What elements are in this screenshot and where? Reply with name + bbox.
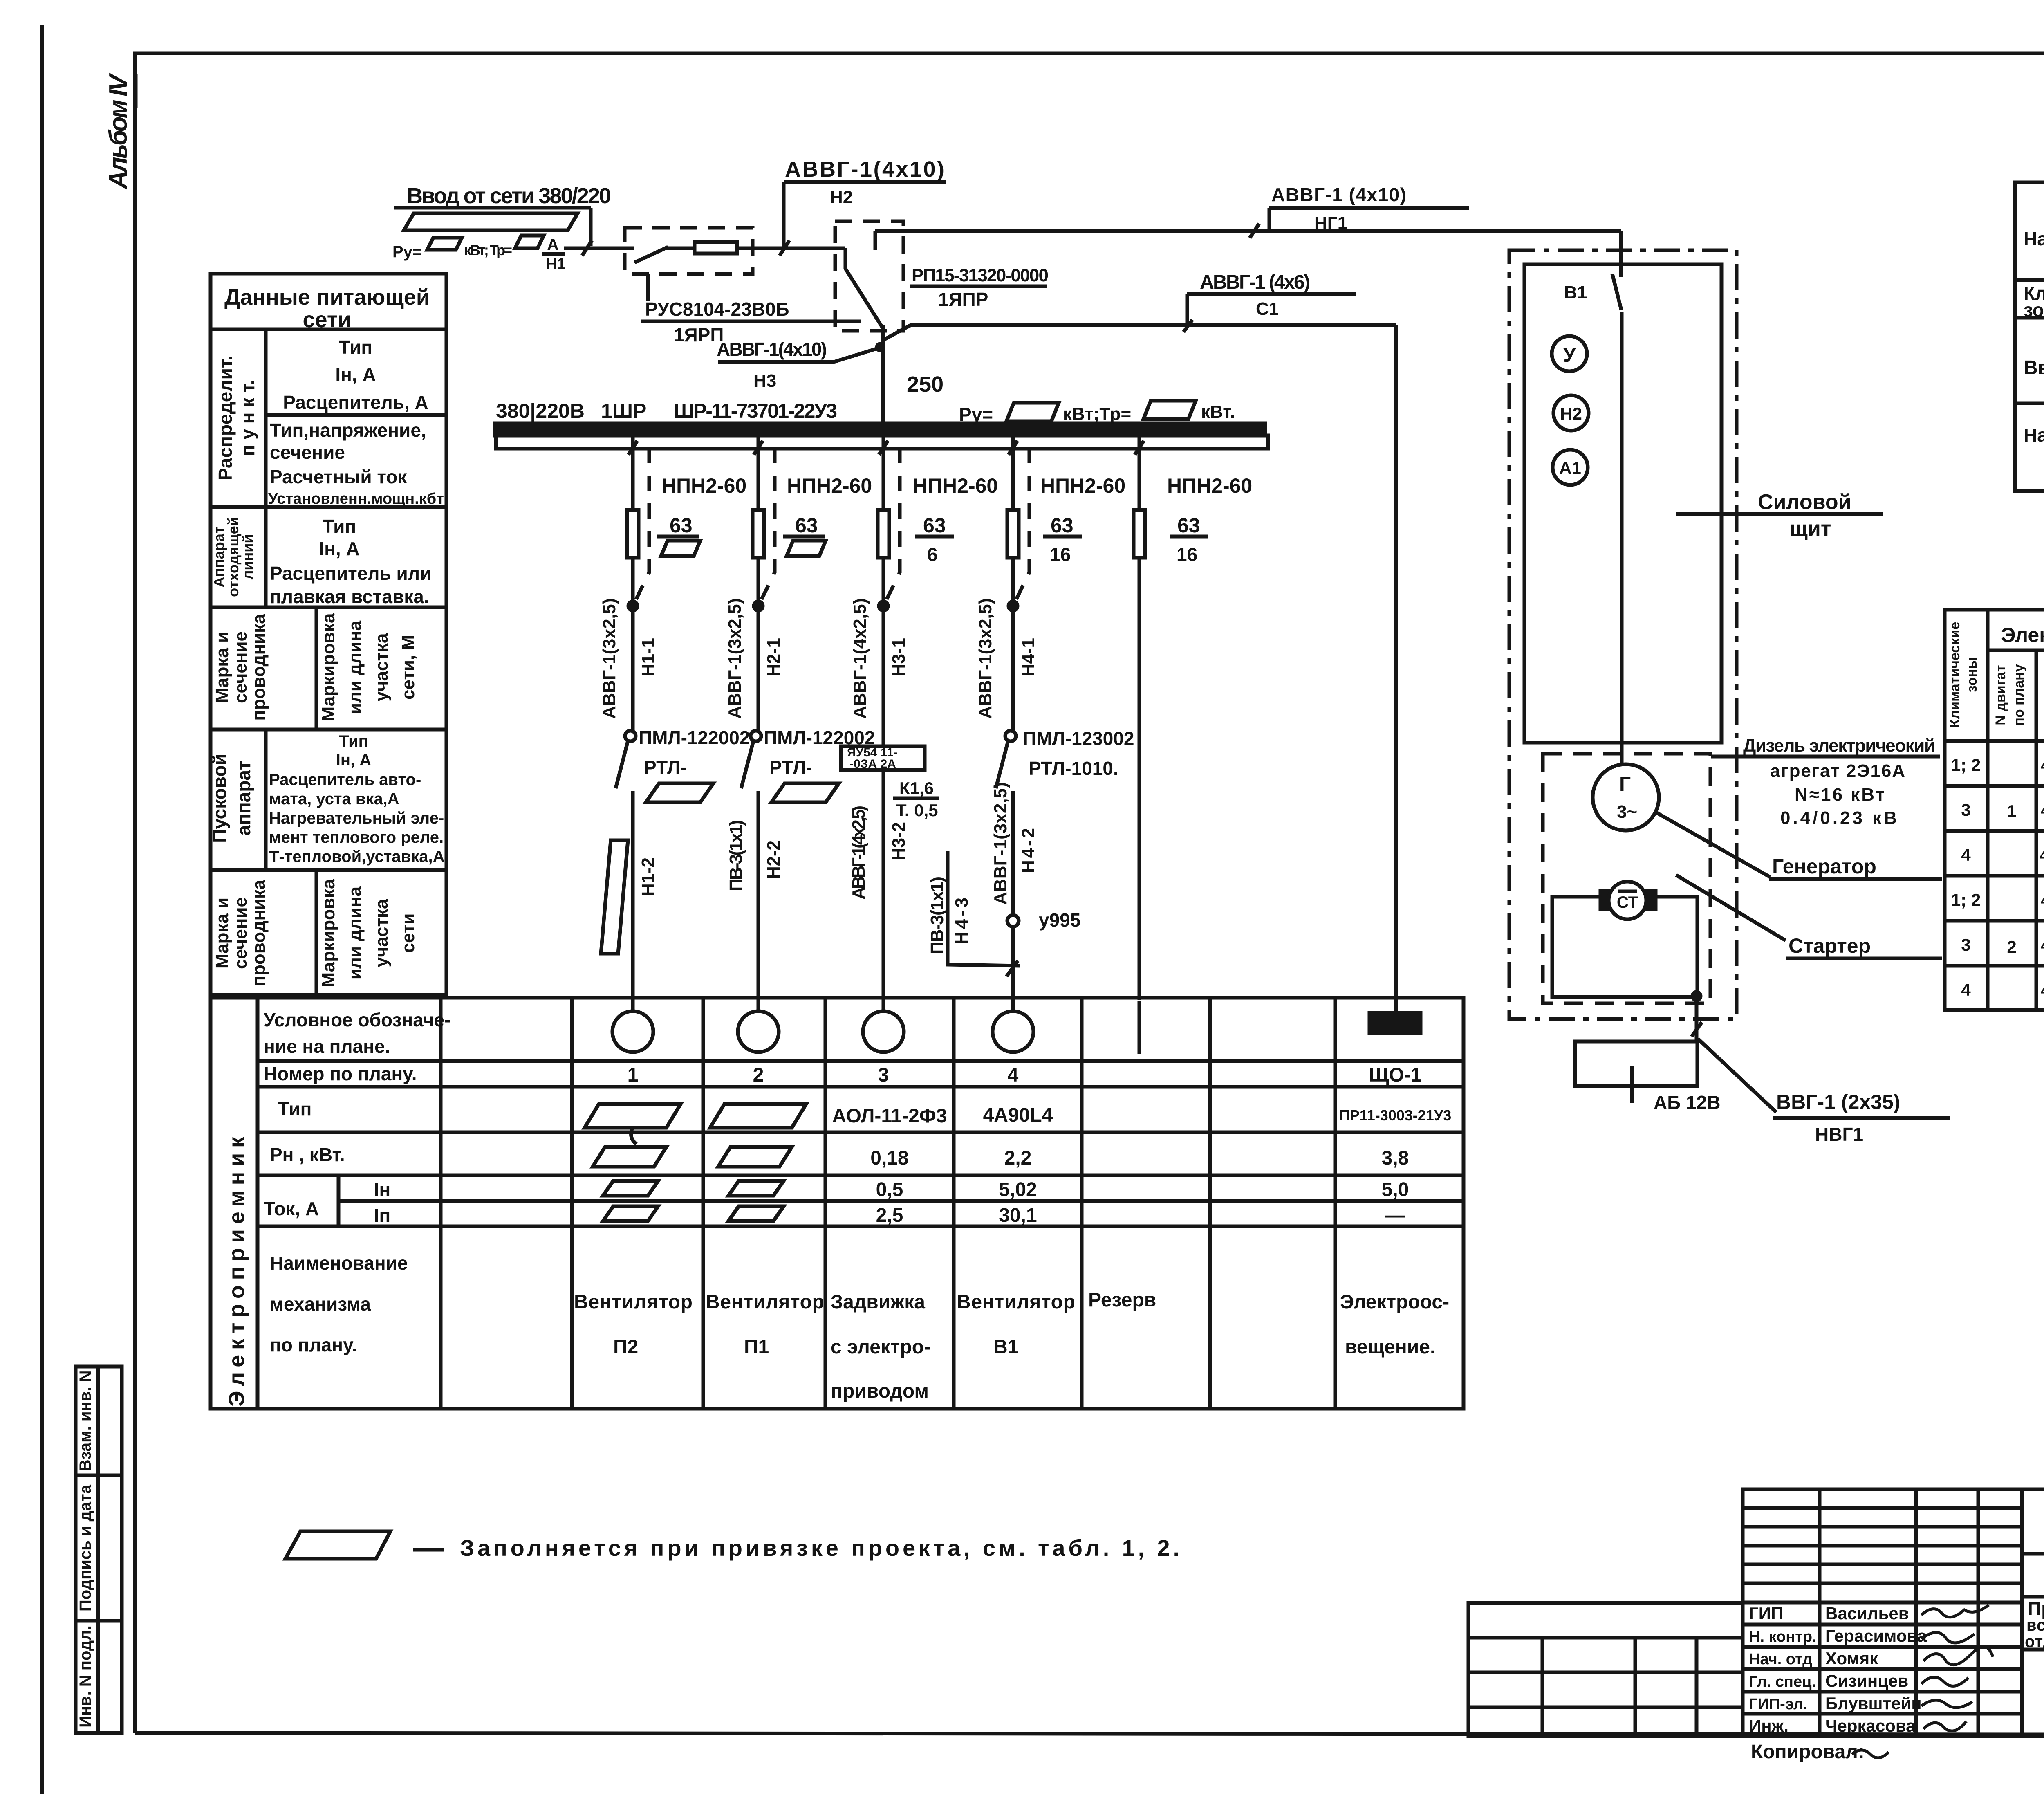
svg-text:Распределит.: Распределит. xyxy=(215,355,236,480)
svg-text:А1: А1 xyxy=(1559,458,1581,478)
svg-text:Тип: Тип xyxy=(339,337,372,358)
svg-text:АВВГ-1(4х10): АВВГ-1(4х10) xyxy=(717,339,827,360)
svg-text:Тип: Тип xyxy=(339,732,368,750)
svg-text:ПР11-3003-21У3: ПР11-3003-21У3 xyxy=(1339,1107,1451,1124)
svg-text:Iн: Iн xyxy=(374,1179,391,1200)
svg-text:А: А xyxy=(547,236,559,254)
svg-text:4А90L4: 4А90L4 xyxy=(983,1104,1053,1126)
svg-text:сечение: сечение xyxy=(270,442,345,463)
svg-text:Заполняется при привязке проек: Заполняется при привязке проекта, см. та… xyxy=(460,1535,1179,1561)
svg-text:16: 16 xyxy=(1177,544,1197,565)
svg-text:N двигат: N двигат xyxy=(1993,665,2008,725)
svg-text:АВВГ-1(3х2,5): АВВГ-1(3х2,5) xyxy=(725,598,745,719)
svg-text:приводом: приводом xyxy=(831,1380,929,1402)
svg-text:Вентилятор: Вентилятор xyxy=(957,1291,1075,1313)
svg-text:Расцепитель авто-: Расцепитель авто- xyxy=(269,771,421,789)
svg-text:Ток, А: Ток, А xyxy=(264,1198,319,1219)
svg-text:ВВГ-1 (2х35): ВВГ-1 (2х35) xyxy=(1776,1091,1900,1113)
svg-text:щит: щит xyxy=(1790,517,1831,541)
svg-text:1ШР: 1ШР xyxy=(601,399,646,422)
svg-text:3~: 3~ xyxy=(1617,802,1637,822)
svg-text:ЩО-1: ЩО-1 xyxy=(1369,1064,1422,1086)
svg-text:плавкая вставка.: плавкая вставка. xyxy=(270,586,429,607)
svg-text:1ЯПР: 1ЯПР xyxy=(938,289,988,310)
svg-text:ГИП: ГИП xyxy=(1749,1604,1783,1623)
svg-text:мент теплового реле.: мент теплового реле. xyxy=(269,828,444,846)
svg-text:63: 63 xyxy=(1051,514,1074,537)
svg-text:п у н к т.: п у н к т. xyxy=(237,380,258,456)
svg-text:ние на плане.: ние на плане. xyxy=(264,1036,390,1057)
svg-text:Т-тепловой,уставка,А: Т-тепловой,уставка,А xyxy=(269,848,444,866)
svg-text:РТЛ-: РТЛ- xyxy=(769,757,812,778)
svg-text:2,2: 2,2 xyxy=(1004,1147,1032,1169)
svg-text:Данные питающей: Данные питающей xyxy=(224,285,430,310)
svg-text:по плану: по плану xyxy=(2011,664,2027,726)
svg-text:1ЯРП: 1ЯРП xyxy=(674,324,724,346)
svg-text:линий: линий xyxy=(239,534,256,579)
svg-text:Васильев: Васильев xyxy=(1825,1604,1909,1623)
svg-text:Н2-2: Н2-2 xyxy=(764,840,784,879)
svg-text:Маркировка: Маркировка xyxy=(318,879,338,987)
svg-text:РТЛ-: РТЛ- xyxy=(644,757,687,778)
svg-text:вспомогательного назначение: вспомогательного назначение xyxy=(2026,1616,2044,1634)
svg-text:СТ: СТ xyxy=(1617,893,1638,911)
svg-text:Нач. отд: Нач. отд xyxy=(1749,1651,1812,1668)
svg-text:НПН2-60: НПН2-60 xyxy=(661,474,746,497)
svg-text:сети: сети xyxy=(303,307,352,332)
svg-text:3: 3 xyxy=(1961,800,1970,819)
svg-text:6: 6 xyxy=(927,544,938,565)
svg-text:На шинах пункта: На шинах пункта xyxy=(2024,424,2044,446)
svg-text:4: 4 xyxy=(1961,980,1971,999)
svg-text:1; 2: 1; 2 xyxy=(1951,755,1981,774)
svg-text:АВВГ-1(4х10): АВВГ-1(4х10) xyxy=(785,157,944,182)
svg-text:АВВГ-1(3х2,5): АВВГ-1(3х2,5) xyxy=(599,598,619,719)
svg-text:Условное обозначе-: Условное обозначе- xyxy=(264,1009,450,1030)
svg-text:Н1-1: Н1-1 xyxy=(638,638,658,677)
svg-text:ПВ-3(1х1): ПВ-3(1х1) xyxy=(726,820,746,891)
svg-text:ПМЛ-122002: ПМЛ-122002 xyxy=(639,727,750,748)
svg-text:В1: В1 xyxy=(1564,283,1587,303)
svg-text:ПМЛ-123002: ПМЛ-123002 xyxy=(1023,728,1134,749)
svg-text:Марка и: Марка и xyxy=(212,898,232,969)
svg-text:сечение: сечение xyxy=(231,897,251,969)
svg-text:АВВГ-1(4х2,5): АВВГ-1(4х2,5) xyxy=(850,598,870,719)
svg-text:у995: у995 xyxy=(1039,909,1080,931)
svg-text:АВВГ-1 (4х10): АВВГ-1 (4х10) xyxy=(1271,184,1406,205)
svg-text:Ввод 380|220: Ввод 380|220 xyxy=(2024,357,2044,379)
svg-text:сети, М: сети, М xyxy=(398,635,418,700)
svg-text:Климатические: Климатические xyxy=(1947,622,1963,727)
svg-text:Электроос-: Электроос- xyxy=(1340,1291,1449,1313)
svg-text:4: 4 xyxy=(1961,845,1971,864)
svg-text:Н3-2: Н3-2 xyxy=(889,822,909,861)
svg-text:2: 2 xyxy=(2007,937,2016,956)
svg-text:механизма: механизма xyxy=(270,1293,371,1315)
svg-text:кВт; Тр=: кВт; Тр= xyxy=(464,242,512,258)
svg-text:Тип,напряжение,: Тип,напряжение, xyxy=(270,420,426,441)
svg-text:380|220В: 380|220В xyxy=(496,399,585,423)
svg-text:3: 3 xyxy=(878,1064,889,1086)
svg-text:Н2-1: Н2-1 xyxy=(764,638,784,677)
svg-text:НГ1: НГ1 xyxy=(1314,213,1347,233)
svg-text:Взам. инв. N: Взам. инв. N xyxy=(76,1371,94,1472)
svg-text:проводника: проводника xyxy=(249,614,269,721)
svg-text:5,02: 5,02 xyxy=(999,1179,1037,1201)
svg-text:Iн, А: Iн, А xyxy=(335,364,376,385)
svg-text:вещение.: вещение. xyxy=(1345,1336,1435,1358)
svg-text:Ру=: Ру= xyxy=(392,243,422,261)
svg-text:с электро-: с электро- xyxy=(831,1336,930,1358)
svg-text:63: 63 xyxy=(923,514,946,537)
svg-text:Альбом IV: Альбом IV xyxy=(104,72,132,190)
svg-text:Вентилятор: Вентилятор xyxy=(706,1291,824,1313)
svg-text:НПН2-60: НПН2-60 xyxy=(1040,474,1125,497)
svg-text:Iн, А: Iн, А xyxy=(319,538,359,559)
svg-text:63: 63 xyxy=(795,514,818,537)
svg-text:П2: П2 xyxy=(613,1336,638,1358)
svg-text:Копировал:: Копировал: xyxy=(1751,1741,1865,1763)
svg-text:Ру=: Ру= xyxy=(959,404,993,425)
svg-text:НПН2-60: НПН2-60 xyxy=(1167,474,1252,497)
svg-text:4А90L4У3: 4А90L4У3 xyxy=(2041,802,2044,819)
svg-text:Хомяк: Хомяк xyxy=(1825,1649,1878,1668)
svg-text:Н1: Н1 xyxy=(546,256,566,273)
svg-text:Iн, А: Iн, А xyxy=(336,751,371,769)
svg-text:Нагревательный эле-: Нагревательный эле- xyxy=(269,809,444,827)
svg-text:НПН2-60: НПН2-60 xyxy=(787,474,872,497)
svg-text:РП15-31320-0000: РП15-31320-0000 xyxy=(912,265,1049,285)
svg-text:Генератор: Генератор xyxy=(1772,855,1876,878)
svg-text:проводника: проводника xyxy=(249,880,269,987)
svg-text:или длина: или длина xyxy=(345,620,365,714)
svg-text:Н. контр.: Н. контр. xyxy=(1749,1628,1817,1645)
svg-text:агрегат 2Э16А: агрегат 2Э16А xyxy=(1770,761,1905,781)
svg-text:Т. 0,5: Т. 0,5 xyxy=(896,801,938,820)
svg-text:Подпись и дата: Подпись и дата xyxy=(76,1484,94,1611)
svg-text:П1: П1 xyxy=(744,1336,769,1358)
svg-text:по плану.: по плану. xyxy=(270,1334,357,1355)
svg-text:Н4-1: Н4-1 xyxy=(1018,638,1038,677)
svg-text:Тип: Тип xyxy=(323,516,356,537)
svg-text:Установленн.мощн.кбт: Установленн.мощн.кбт xyxy=(268,490,444,507)
svg-text:Тип: Тип xyxy=(278,1098,312,1120)
svg-text:0.4/0.23 кВ: 0.4/0.23 кВ xyxy=(1780,808,1897,828)
svg-text:РУС8104-23В0Б: РУС8104-23В0Б xyxy=(645,298,789,320)
svg-text:аппарат: аппарат xyxy=(233,761,254,836)
svg-text:АВВГ-1(3х2,5): АВВГ-1(3х2,5) xyxy=(975,598,995,719)
svg-text:Расцепитель или: Расцепитель или xyxy=(270,563,431,584)
svg-text:63: 63 xyxy=(1177,514,1200,537)
svg-text:НПН2-60: НПН2-60 xyxy=(913,474,998,497)
svg-text:1: 1 xyxy=(2007,801,2016,821)
svg-text:4А80В2У3: 4А80В2У3 xyxy=(2041,937,2044,954)
svg-text:Маркировка: Маркировка xyxy=(318,613,338,721)
svg-text:Резерв: Резерв xyxy=(1088,1289,1156,1311)
svg-text:Н3: Н3 xyxy=(753,371,776,391)
svg-text:ГИП-эл.: ГИП-эл. xyxy=(1749,1696,1808,1713)
svg-text:4А112МА6У3: 4А112МА6У3 xyxy=(2040,847,2044,864)
svg-text:4: 4 xyxy=(1008,1064,1019,1086)
svg-text:5,0: 5,0 xyxy=(1382,1179,1409,1201)
svg-text:Расчетный ток: Расчетный ток xyxy=(270,466,407,487)
svg-text:Наименование: Наименование xyxy=(270,1252,408,1274)
svg-text:Н4-2: Н4-2 xyxy=(1018,828,1038,873)
svg-text:Электроприемник: Электроприемник xyxy=(224,1136,249,1407)
svg-text:Г: Г xyxy=(1619,773,1631,796)
svg-text:АВВГ-1(3х2,5): АВВГ-1(3х2,5) xyxy=(991,782,1011,905)
svg-text:сети: сети xyxy=(398,913,418,953)
svg-text:сечение: сечение xyxy=(231,631,251,703)
svg-text:участка: участка xyxy=(372,899,392,967)
svg-text:Пусковой: Пусковой xyxy=(209,754,230,843)
svg-text:Электроприемник: Электроприемник xyxy=(2001,624,2044,646)
svg-text:4АТ182У3: 4АТ182У3 xyxy=(2041,892,2044,909)
svg-text:АБ 12В: АБ 12В xyxy=(1654,1092,1720,1113)
svg-text:Н2: Н2 xyxy=(1560,404,1582,423)
svg-text:2,5: 2,5 xyxy=(876,1205,903,1226)
svg-text:мата, уста вка,А: мата, уста вка,А xyxy=(269,790,399,808)
svg-text:4А90L2У3: 4А90L2У3 xyxy=(2041,982,2044,999)
svg-text:Гл. спец.: Гл. спец. xyxy=(1749,1673,1816,1690)
svg-text:3: 3 xyxy=(1961,935,1970,954)
svg-text:Расцепитель, А: Расцепитель, А xyxy=(283,392,428,413)
svg-text:0,5: 0,5 xyxy=(876,1179,903,1201)
svg-text:Инв. N подл.: Инв. N подл. xyxy=(76,1625,94,1728)
svg-text:АОЛ-11-2Ф3: АОЛ-11-2Ф3 xyxy=(832,1105,947,1127)
svg-text:Н1-2: Н1-2 xyxy=(638,857,658,896)
svg-text:63: 63 xyxy=(670,514,693,537)
svg-text:Силовой: Силовой xyxy=(1758,490,1851,514)
svg-text:Сизинцев: Сизинцев xyxy=(1825,1671,1908,1690)
svg-text:Инж.: Инж. xyxy=(1749,1716,1788,1735)
svg-text:С1: С1 xyxy=(1256,299,1279,319)
svg-text:Номер по плану.: Номер по плану. xyxy=(264,1063,417,1084)
svg-text:Наименование: Наименование xyxy=(2024,228,2044,249)
svg-text:3,8: 3,8 xyxy=(1382,1147,1409,1169)
svg-text:Вентилятор: Вентилятор xyxy=(574,1291,693,1313)
svg-text:Iп: Iп xyxy=(374,1205,391,1226)
svg-text:0,18: 0,18 xyxy=(870,1147,908,1169)
svg-text:Герасимова: Герасимова xyxy=(1825,1626,1927,1645)
svg-text:Рн , кВт.: Рн , кВт. xyxy=(270,1144,345,1165)
svg-text:1: 1 xyxy=(628,1064,639,1086)
svg-text:Марка и: Марка и xyxy=(212,632,232,703)
svg-text:Дизель электричеокий: Дизель электричеокий xyxy=(1743,736,1935,756)
svg-text:1; 2: 1; 2 xyxy=(1951,890,1981,909)
svg-text:Задвижка: Задвижка xyxy=(831,1291,925,1313)
svg-text:Н3-1: Н3-1 xyxy=(889,638,909,677)
svg-text:30,1: 30,1 xyxy=(999,1205,1037,1226)
svg-text:зоны: зоны xyxy=(2024,299,2044,321)
svg-text:Стартер: Стартер xyxy=(1788,934,1871,957)
svg-text:кВт;Тр=: кВт;Тр= xyxy=(1063,404,1131,424)
svg-text:Блувштейн: Блувштейн xyxy=(1825,1694,1922,1713)
svg-text:У: У xyxy=(1563,343,1576,366)
svg-text:К1,6: К1,6 xyxy=(899,779,934,798)
svg-text:Н4-3: Н4-3 xyxy=(952,898,972,945)
svg-text:участка: участка xyxy=(372,633,392,702)
svg-text:НВГ1: НВГ1 xyxy=(1815,1124,1863,1145)
svg-text:Ввод от сети 380/220: Ввод от сети 380/220 xyxy=(407,184,611,208)
svg-text:2: 2 xyxy=(753,1064,764,1086)
svg-text:или длина: или длина xyxy=(345,886,365,980)
svg-text:-0ЗА 2А: -0ЗА 2А xyxy=(849,757,896,771)
svg-text:ШР-11-73701-22У3: ШР-11-73701-22У3 xyxy=(674,399,837,422)
svg-text:4А90L4У3: 4А90L4У3 xyxy=(2041,757,2044,774)
svg-text:АВВГ-1(4х2,5): АВВГ-1(4х2,5) xyxy=(849,806,869,900)
svg-text:ПВ-3(1х1): ПВ-3(1х1) xyxy=(927,877,947,954)
svg-text:250: 250 xyxy=(907,372,944,397)
svg-text:16: 16 xyxy=(1050,544,1071,565)
svg-text:кВт.: кВт. xyxy=(1201,402,1235,422)
svg-text:—: — xyxy=(1385,1205,1405,1226)
svg-text:Н2: Н2 xyxy=(830,187,853,207)
svg-text:В1: В1 xyxy=(993,1336,1018,1358)
svg-text:зоны: зоны xyxy=(1964,657,1980,692)
svg-text:Черкасова: Черкасова xyxy=(1825,1716,1916,1735)
svg-text:N≈16 кВт: N≈16 кВт xyxy=(1795,785,1885,805)
svg-text:РТЛ-1010.: РТЛ-1010. xyxy=(1029,758,1118,779)
svg-text:АВВГ-1 (4х6): АВВГ-1 (4х6) xyxy=(1200,272,1310,293)
